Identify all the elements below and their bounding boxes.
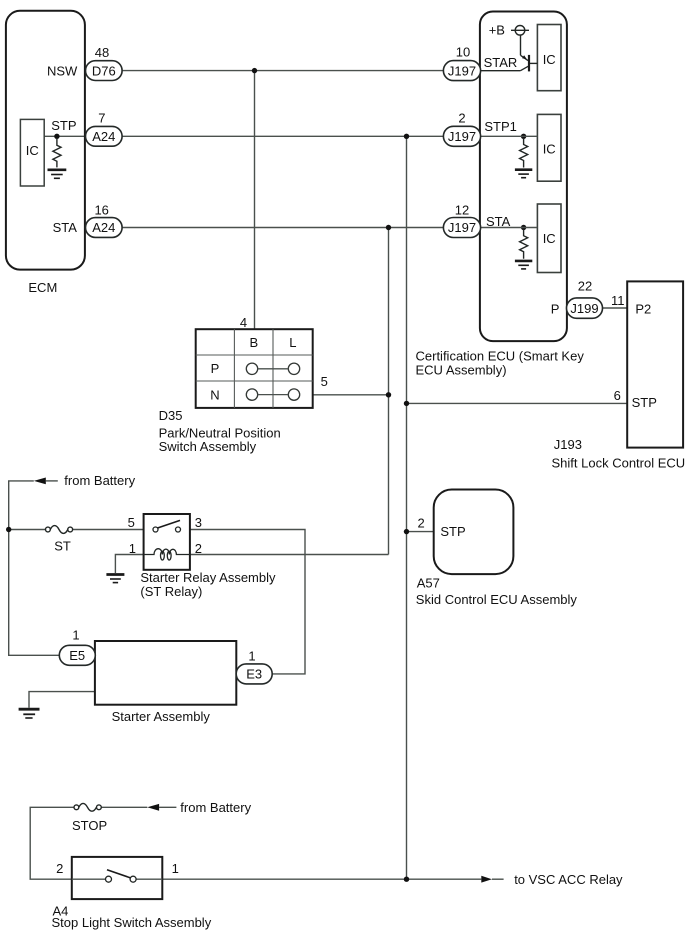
svg-text:Skid Control ECU Assembly: Skid Control ECU Assembly bbox=[416, 592, 578, 607]
svg-text:+B: +B bbox=[489, 23, 505, 38]
svg-text:Stop Light Switch Assembly: Stop Light Switch Assembly bbox=[52, 915, 212, 930]
svg-text:ECM: ECM bbox=[28, 280, 57, 295]
svg-text:J193: J193 bbox=[554, 437, 582, 452]
svg-text:10: 10 bbox=[456, 44, 470, 59]
svg-text:N: N bbox=[210, 387, 219, 402]
svg-text:6: 6 bbox=[614, 388, 621, 403]
svg-text:Starter Assembly: Starter Assembly bbox=[112, 709, 211, 724]
svg-text:Starter Relay Assembly: Starter Relay Assembly bbox=[140, 570, 276, 585]
svg-text:J197: J197 bbox=[448, 129, 476, 144]
svg-text:J197: J197 bbox=[448, 63, 476, 78]
svg-text:Shift Lock Control ECU: Shift Lock Control ECU bbox=[552, 456, 686, 471]
svg-text:7: 7 bbox=[98, 111, 105, 126]
svg-text:P2: P2 bbox=[635, 302, 651, 317]
svg-text:16: 16 bbox=[94, 203, 108, 218]
svg-text:B: B bbox=[249, 335, 258, 350]
svg-text:STP1: STP1 bbox=[484, 119, 517, 134]
svg-text:STP: STP bbox=[51, 118, 76, 133]
svg-text:E3: E3 bbox=[246, 667, 262, 682]
svg-text:STOP: STOP bbox=[72, 818, 107, 833]
svg-text:E5: E5 bbox=[69, 648, 85, 663]
svg-text:3: 3 bbox=[195, 515, 202, 530]
svg-text:P: P bbox=[211, 361, 220, 376]
svg-text:48: 48 bbox=[95, 45, 109, 60]
svg-text:ST: ST bbox=[54, 539, 71, 554]
svg-text:STP: STP bbox=[632, 395, 657, 410]
svg-text:Park/Neutral Position: Park/Neutral Position bbox=[159, 425, 281, 440]
svg-text:IC: IC bbox=[543, 142, 556, 157]
svg-text:Certification ECU (Smart Key: Certification ECU (Smart Key bbox=[416, 348, 585, 363]
svg-text:(ST Relay): (ST Relay) bbox=[140, 584, 202, 599]
svg-text:D35: D35 bbox=[159, 408, 183, 423]
svg-text:2: 2 bbox=[195, 541, 202, 556]
svg-text:A24: A24 bbox=[92, 220, 115, 235]
svg-text:STA: STA bbox=[486, 214, 511, 229]
svg-text:5: 5 bbox=[128, 515, 135, 530]
svg-text:IC: IC bbox=[543, 52, 556, 67]
svg-text:22: 22 bbox=[578, 278, 592, 293]
svg-text:2: 2 bbox=[418, 515, 425, 530]
svg-text:1: 1 bbox=[248, 648, 255, 663]
svg-text:2: 2 bbox=[56, 861, 63, 876]
svg-text:J197: J197 bbox=[448, 220, 476, 235]
svg-text:5: 5 bbox=[321, 374, 328, 389]
svg-text:STAR: STAR bbox=[484, 55, 518, 70]
svg-text:ECU Assembly): ECU Assembly) bbox=[416, 362, 507, 377]
svg-text:from Battery: from Battery bbox=[64, 473, 135, 488]
svg-text:4: 4 bbox=[240, 315, 247, 330]
svg-text:12: 12 bbox=[455, 203, 469, 218]
svg-text:1: 1 bbox=[172, 861, 179, 876]
svg-text:Switch Assembly: Switch Assembly bbox=[159, 439, 257, 454]
svg-text:11: 11 bbox=[611, 293, 625, 308]
svg-text:L: L bbox=[289, 335, 296, 350]
svg-text:A24: A24 bbox=[92, 129, 115, 144]
svg-text:P: P bbox=[551, 301, 560, 316]
svg-text:1: 1 bbox=[129, 541, 136, 556]
svg-text:NSW: NSW bbox=[47, 63, 78, 78]
svg-text:IC: IC bbox=[543, 231, 556, 246]
svg-text:STA: STA bbox=[53, 220, 78, 235]
svg-text:J199: J199 bbox=[570, 301, 598, 316]
svg-text:A57: A57 bbox=[417, 576, 440, 591]
svg-text:STP: STP bbox=[440, 524, 465, 539]
svg-text:from Battery: from Battery bbox=[180, 800, 251, 815]
svg-text:to VSC ACC Relay: to VSC ACC Relay bbox=[514, 872, 623, 887]
svg-text:IC: IC bbox=[26, 143, 39, 158]
svg-text:D76: D76 bbox=[92, 63, 116, 78]
svg-text:1: 1 bbox=[72, 628, 79, 643]
svg-text:2: 2 bbox=[458, 111, 465, 126]
